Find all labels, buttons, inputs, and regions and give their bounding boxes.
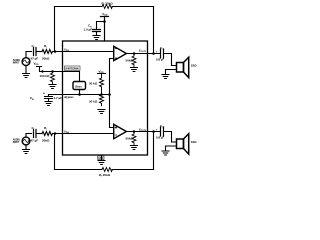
svg-text:VOUT2: VOUT2 xyxy=(139,127,147,132)
svg-text:INPUT: INPUT xyxy=(13,62,20,65)
svg-text:VIN2: VIN2 xyxy=(64,129,70,134)
svg-text:20kΩ: 20kΩ xyxy=(42,138,50,142)
svg-text:0.47 µF: 0.47 µF xyxy=(28,138,38,142)
svg-text:GND: GND xyxy=(98,158,103,160)
svg-text:32Ω: 32Ω xyxy=(191,64,197,68)
svg-text:Ci: Ci xyxy=(32,126,35,131)
svg-text:Ci: Ci xyxy=(32,44,35,49)
svg-text:+: + xyxy=(43,92,45,96)
svg-text:SHUTDOWN: SHUTDOWN xyxy=(65,67,79,71)
svg-text:50 kΩ: 50 kΩ xyxy=(89,100,98,104)
svg-text:0.47 µF: 0.47 µF xyxy=(28,56,38,60)
svg-text:Ri: Ri xyxy=(44,126,47,131)
svg-text:100 µF: 100 µF xyxy=(156,58,164,61)
svg-text:VDD: VDD xyxy=(102,12,108,17)
svg-text:32Ω: 32Ω xyxy=(191,140,197,144)
svg-text:VDD: VDD xyxy=(34,62,40,67)
svg-text:Ri: Ri xyxy=(44,44,47,49)
svg-text:Bypass: Bypass xyxy=(65,95,75,99)
svg-text:Bias: Bias xyxy=(75,84,82,88)
svg-text:+: + xyxy=(156,49,158,53)
svg-text:Rf 20kΩ: Rf 20kΩ xyxy=(99,173,111,178)
svg-text:4.7 µF: 4.7 µF xyxy=(54,96,63,100)
svg-text:20kΩ: 20kΩ xyxy=(42,56,50,60)
svg-text:VDD: VDD xyxy=(99,69,105,74)
svg-text:100 kΩ: 100 kΩ xyxy=(40,74,51,78)
svg-text:50kΩ: 50kΩ xyxy=(126,137,134,141)
svg-text:VOUT1: VOUT1 xyxy=(139,49,147,54)
svg-text:100 µF: 100 µF xyxy=(156,136,164,139)
svg-text:50kΩ: 50kΩ xyxy=(126,59,134,63)
svg-text:1.0 µF: 1.0 µF xyxy=(84,28,93,32)
svg-text:+: + xyxy=(156,127,158,131)
svg-text:VIN1: VIN1 xyxy=(64,47,70,52)
svg-text:50 kΩ: 50 kΩ xyxy=(89,82,98,86)
svg-text:CB: CB xyxy=(30,96,34,101)
svg-text:INPUT: INPUT xyxy=(13,141,20,144)
svg-text:Rf 20kΩ: Rf 20kΩ xyxy=(102,1,114,6)
